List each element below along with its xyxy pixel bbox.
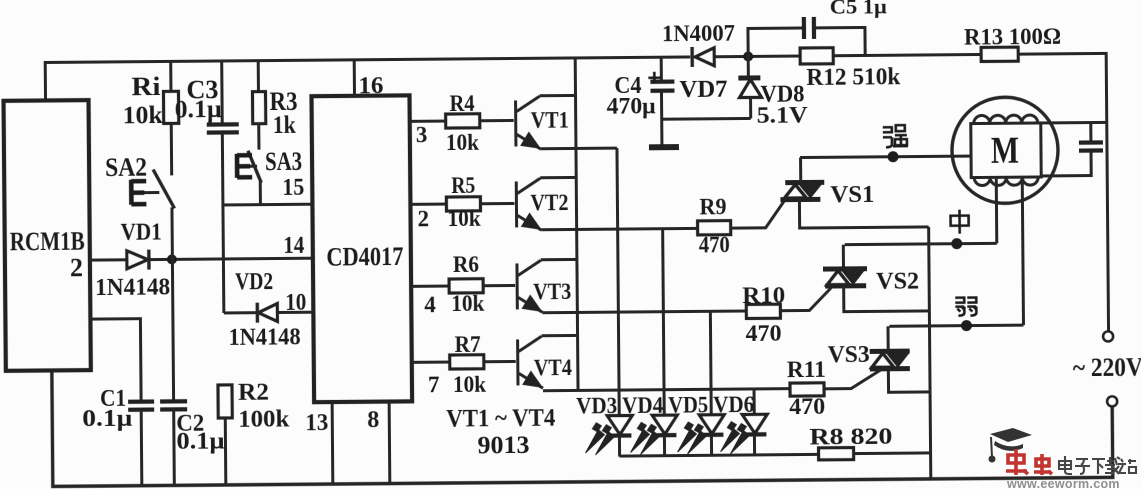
svg-text:www.eeworm.com: www.eeworm.com [1006, 477, 1120, 489]
wire bottom ground rail [52, 361, 1113, 486]
svg-text:R2: R2 [238, 380, 269, 406]
wire motor tap zhong [995, 177, 999, 243]
wire VT3 emitter run to R10 [542, 311, 746, 313]
svg-text:VD1: VD1 [121, 219, 162, 245]
svg-text:1k: 1k [273, 112, 296, 139]
svg-text:10: 10 [285, 290, 306, 316]
node A junction SA2/C2/VD1 [167, 254, 177, 264]
svg-text:2: 2 [417, 206, 429, 231]
svg-text:R5: R5 [451, 173, 475, 198]
wire VS1 bottom run to bus [799, 198, 928, 228]
svg-text:VT4: VT4 [534, 355, 573, 380]
svg-text:15: 15 [282, 175, 304, 201]
resistor R3 [257, 61, 260, 92]
triac VS1 [785, 180, 824, 185]
svg-text:R11: R11 [787, 357, 826, 382]
wire VT4 emitter run to R11 [543, 389, 790, 391]
resistor R4 [446, 114, 480, 128]
wire motor tap ruo [1022, 177, 1023, 325]
svg-text:VD6: VD6 [713, 392, 754, 417]
svg-text:R13 100Ω: R13 100Ω [964, 24, 1061, 50]
wire rail segment R13 to right corner [1018, 53, 1108, 332]
wire pin16 riser [353, 60, 356, 96]
resistor R2 [218, 385, 232, 418]
resistor R12 [800, 48, 833, 64]
wire VS2 top lead [842, 245, 845, 269]
wire pin13 drop [331, 402, 335, 484]
svg-text:R10: R10 [742, 283, 785, 308]
svg-text:R8 820: R8 820 [809, 424, 892, 450]
svg-text:16: 16 [358, 73, 383, 99]
resistor R5 [446, 197, 480, 211]
wire qiang run VS1 to motor [800, 156, 971, 157]
wire VT1 collector [540, 94, 576, 97]
svg-text:13: 13 [305, 410, 328, 436]
svg-text:1N4148: 1N4148 [95, 274, 170, 301]
svg-text:9013: 9013 [477, 432, 529, 459]
node B supply junction [743, 51, 753, 61]
svg-text:VS3: VS3 [828, 342, 870, 368]
wire ruo run to motor [889, 325, 1023, 326]
wire VS3 bottom run [888, 368, 930, 392]
switch SA2 [170, 123, 173, 175]
wire VT2 emitter run to R9 [542, 228, 698, 229]
svg-text:1N4007: 1N4007 [662, 21, 735, 47]
label zhong [950, 210, 968, 234]
triac VS3 [870, 349, 910, 354]
wire LED cathode bus [620, 454, 819, 456]
resistor R11 [790, 383, 824, 396]
wire VT4 collector [542, 334, 578, 337]
watermark logo cap [989, 428, 1033, 463]
svg-text:10k: 10k [123, 102, 163, 129]
resistor Ri [169, 61, 172, 91]
wire VS2 bottom run [844, 285, 930, 311]
node qiang dot [887, 151, 898, 162]
wire VS2 top run [845, 242, 929, 246]
svg-text:10k: 10k [446, 130, 479, 155]
wire VS1 top lead [799, 158, 802, 183]
wire pin15 run [223, 203, 310, 207]
node zhong dot [951, 238, 962, 249]
wire pin8 drop [388, 402, 392, 484]
resistor R8 [819, 448, 854, 460]
motor M [952, 97, 1059, 204]
node ruo dot [961, 320, 972, 331]
diode VD1 [127, 251, 148, 269]
ground bar C4 [649, 144, 679, 150]
svg-text:C5 1μ: C5 1μ [830, 0, 887, 19]
wire rail segment R12 to R13 [833, 54, 981, 55]
terminal upper 220V [1103, 331, 1113, 341]
svg-text:CD4017: CD4017 [326, 241, 403, 272]
svg-text:7: 7 [428, 372, 440, 397]
wire pin4 to R6 [411, 285, 449, 288]
wire motor right to rail [1041, 121, 1107, 125]
LED VD5 [709, 311, 713, 413]
svg-text:M: M [991, 130, 1019, 172]
resistor R13 [981, 47, 1018, 61]
svg-text:10k: 10k [453, 372, 486, 397]
svg-text:SA2: SA2 [105, 153, 147, 182]
svg-text:2: 2 [70, 253, 83, 282]
svg-text:8: 8 [367, 407, 379, 433]
watermark chongchong red [1006, 449, 1052, 475]
wire pin10 run with VD2 [224, 311, 258, 314]
svg-text:R6: R6 [453, 252, 479, 277]
LED VD4 [663, 229, 665, 414]
svg-text:3: 3 [416, 122, 428, 147]
zener VD8 [747, 56, 750, 76]
svg-text:Ri: Ri [131, 72, 160, 101]
svg-text:RCM1B: RCM1B [10, 227, 85, 257]
capacitor C5 [748, 28, 802, 56]
transistor Q1 VT1 [514, 100, 517, 146]
svg-text:R4: R4 [449, 91, 475, 116]
LED VD6 [753, 389, 756, 413]
diode VD7 1N4007 [695, 48, 714, 66]
wire R11 to VS3 gate [824, 370, 881, 389]
capacitor C2 [172, 259, 173, 400]
resistor R10 [746, 304, 780, 318]
svg-text:10k: 10k [451, 291, 484, 316]
svg-text:VT1: VT1 [531, 108, 569, 133]
svg-text:VD2: VD2 [235, 269, 273, 295]
svg-text:VD4: VD4 [622, 393, 664, 418]
LED VD3 [617, 148, 619, 414]
svg-text:100k: 100k [238, 407, 290, 433]
wire pin2 to VD1 to CD4017 pin14 [90, 258, 127, 261]
wire VT2 collector [540, 176, 576, 179]
wire R10 to VS2 gate [780, 288, 831, 311]
wire R8 to bus [854, 451, 931, 455]
switch SA3 [257, 124, 260, 150]
svg-text:0.1μ: 0.1μ [175, 96, 222, 123]
svg-text:R12 510k: R12 510k [806, 64, 901, 91]
wire zhong run to motor [929, 242, 997, 246]
wire top supply rail [45, 57, 690, 101]
svg-text:R9: R9 [699, 194, 726, 219]
wire collector bus [575, 58, 578, 390]
svg-text:VD3: VD3 [576, 393, 617, 418]
svg-text:470: 470 [699, 232, 730, 257]
resistor R9 [698, 221, 731, 235]
svg-text:0.1μ: 0.1μ [82, 406, 133, 432]
svg-text:VD7: VD7 [679, 77, 727, 103]
svg-text:R7: R7 [455, 332, 481, 357]
svg-text:VT2: VT2 [530, 190, 568, 215]
wire VT1 emitter run to VD3 [541, 147, 617, 151]
terminal lower 220V [1107, 396, 1117, 406]
watermark site name [1059, 456, 1136, 474]
wire rail segment VD7 to node [714, 55, 800, 59]
wire pin7 to R7 [412, 361, 450, 364]
resistor R6 [449, 279, 483, 293]
svg-text:1N4148: 1N4148 [228, 324, 300, 351]
svg-text:SA3: SA3 [265, 147, 302, 176]
capacitor C4 electrolytic [660, 57, 663, 80]
wire VT3 collector [541, 258, 577, 261]
wire pin3 to R4 [410, 120, 446, 123]
svg-text:14: 14 [283, 233, 304, 259]
svg-text:VD5: VD5 [668, 392, 708, 417]
resistor R7 [450, 355, 484, 369]
capacitor C3 [220, 61, 224, 124]
svg-text:VT3: VT3 [533, 279, 571, 304]
svg-text:0.1μ: 0.1μ [176, 429, 225, 455]
svg-text:VS1: VS1 [830, 182, 874, 208]
IC U1 RCM1B box [4, 100, 91, 371]
svg-text:~ 220V: ~ 220V [1073, 353, 1141, 383]
svg-text:470μ: 470μ [606, 93, 655, 118]
wire main triac bus [929, 227, 931, 479]
wire pin2 to R5 [410, 203, 446, 206]
svg-text:470: 470 [745, 321, 781, 346]
transistor Q4 VT4 [516, 339, 519, 385]
triac VS2 [823, 266, 867, 271]
label ruo [955, 298, 976, 316]
svg-text:5.1V: 5.1V [757, 103, 809, 128]
wire VD8 to C4 ground [662, 117, 751, 121]
capacitor C1 [90, 319, 141, 401]
svg-text:4: 4 [424, 292, 436, 317]
capacitor motor run cap [1089, 123, 1092, 142]
transistor Q2 VT2 [515, 181, 518, 227]
wire VS3 top lead [886, 326, 889, 351]
IC U2 CD4017 box [312, 95, 413, 402]
svg-text:VT1 ~ VT4: VT1 ~ VT4 [446, 405, 556, 433]
wire R9 to VS1 gate [730, 201, 784, 228]
diode VD2 [258, 304, 277, 322]
svg-text:VS2: VS2 [876, 269, 919, 295]
label qiang [883, 125, 908, 147]
svg-text:10k: 10k [447, 206, 480, 231]
transistor Q3 VT3 [515, 263, 518, 309]
svg-text:470: 470 [789, 394, 825, 419]
